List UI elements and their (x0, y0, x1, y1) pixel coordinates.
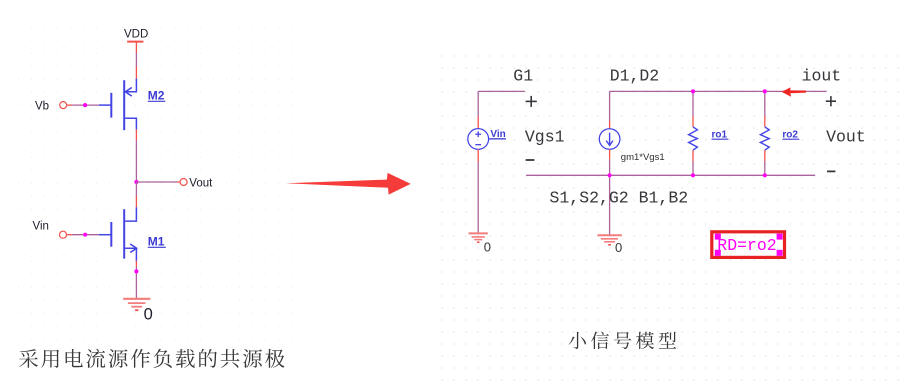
svg-text:Vb: Vb (35, 100, 49, 112)
svg-text:Vgs1: Vgs1 (525, 127, 565, 146)
svg-text:Vout: Vout (189, 177, 213, 189)
svg-text:iout: iout (802, 67, 842, 86)
svg-text:0: 0 (484, 239, 491, 254)
svg-text:D1,D2: D1,D2 (610, 67, 660, 86)
svg-text:0: 0 (144, 306, 153, 324)
svg-text:0: 0 (615, 240, 622, 255)
svg-text:Vout: Vout (826, 127, 866, 146)
svg-text:Vin: Vin (490, 129, 505, 140)
svg-text:VDD: VDD (124, 29, 148, 41)
svg-text:G1: G1 (513, 67, 533, 86)
svg-text:RD=ro2: RD=ro2 (717, 236, 776, 255)
svg-text:Vin: Vin (33, 220, 49, 232)
svg-text:S1,S2,G2 B1,B2: S1,S2,G2 B1,B2 (550, 188, 689, 207)
svg-text:M2: M2 (148, 88, 165, 102)
svg-text:M1: M1 (148, 234, 165, 248)
svg-text:gm1*Vgs1: gm1*Vgs1 (621, 152, 665, 163)
